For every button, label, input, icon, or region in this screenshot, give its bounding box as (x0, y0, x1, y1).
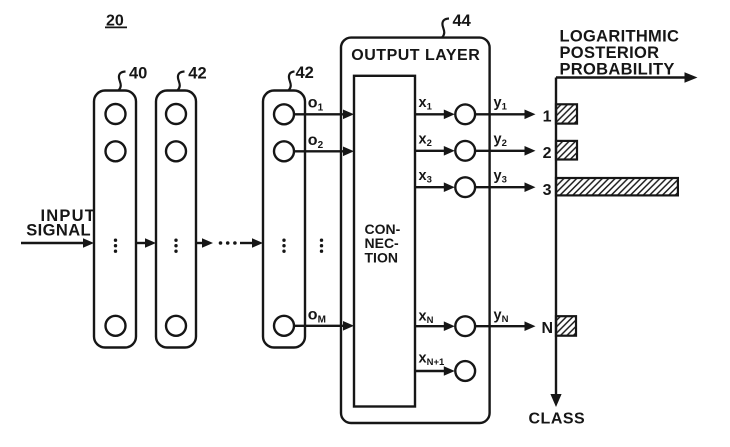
node circle (166, 104, 186, 124)
output layer box 44 (341, 38, 490, 423)
neuron circle y1 (455, 104, 475, 124)
wire layer40 to 42a (136, 242, 146, 244)
wire xN+1 (415, 370, 445, 372)
bar 2 (556, 141, 577, 160)
svg-text:TION: TION (365, 249, 398, 265)
svg-text:N: N (541, 320, 553, 337)
layer block 42a (156, 91, 196, 348)
wire o1 (295, 113, 345, 115)
lead line for 40 (119, 72, 126, 91)
reference numeral 20 (105, 13, 127, 30)
wire yN (476, 325, 526, 327)
svg-text:40: 40 (129, 65, 147, 83)
wire xN (415, 325, 445, 327)
vertical ellipsis in layer 42a (174, 239, 177, 253)
lead line for 42b (289, 72, 295, 91)
wire o2 (295, 150, 345, 152)
wire y2 (476, 150, 526, 152)
svg-text:2: 2 (543, 145, 552, 162)
bar N (556, 316, 576, 336)
svg-text:42: 42 (188, 65, 206, 83)
svg-text:POSTERIOR: POSTERIOR (560, 44, 660, 62)
node circle o1 (274, 104, 294, 124)
wire ellipsis to layer 42b (240, 242, 253, 244)
vertical ellipsis in layer 40 (114, 239, 117, 253)
vertical ellipsis in layer 42b (282, 239, 285, 253)
wire y1 (476, 113, 526, 115)
bar 1 (556, 104, 577, 123)
node circle (106, 104, 126, 124)
layer block 42b (263, 91, 305, 348)
horizontal ellipsis (219, 241, 237, 245)
probability axis vertical (555, 78, 557, 398)
class axis arrowhead (550, 394, 561, 407)
wire oM (295, 325, 345, 327)
svg-text:1: 1 (543, 108, 552, 125)
neuron circle y3 (455, 177, 475, 197)
wire x2 (415, 150, 445, 152)
wire x1 (415, 113, 445, 115)
neuron circle y2 (455, 141, 475, 161)
neuron circle yN (455, 316, 475, 336)
node circle oM (274, 316, 294, 336)
svg-text:42: 42 (296, 64, 314, 82)
wire x3 (415, 186, 445, 188)
svg-text:SIGNAL: SIGNAL (26, 222, 91, 240)
neuron circle N+1 (455, 361, 475, 381)
node circle o2 (274, 141, 294, 161)
connection block (354, 76, 415, 407)
vertical ellipsis between layer 42b and output layer (320, 239, 323, 253)
wire layer42a to ellipsis (196, 242, 203, 244)
svg-text:CLASS: CLASS (529, 411, 586, 428)
bar 3 (556, 178, 678, 195)
svg-text:OUTPUT LAYER: OUTPUT LAYER (351, 47, 480, 64)
node circle (166, 316, 186, 336)
node circle (106, 316, 126, 336)
lead line for 44 (442, 19, 449, 38)
svg-text:44: 44 (453, 12, 472, 30)
node circle (106, 141, 126, 161)
lead line for 42a (178, 72, 185, 91)
svg-text:LOGARITHMIC: LOGARITHMIC (560, 28, 680, 46)
svg-text:3: 3 (543, 182, 552, 199)
probability axis horizontal arrow (556, 76, 687, 78)
svg-text:PROBABILITY: PROBABILITY (560, 60, 675, 78)
wire y3 (476, 186, 526, 188)
input signal wire (21, 242, 84, 244)
layer block 40 (94, 91, 136, 348)
node circle (166, 141, 186, 161)
